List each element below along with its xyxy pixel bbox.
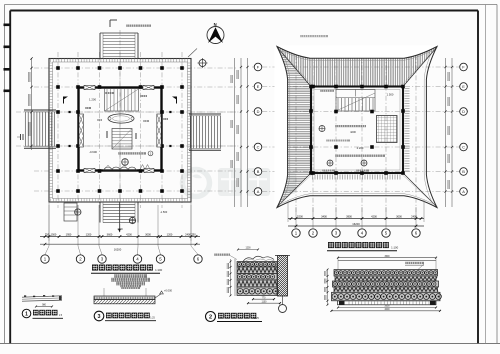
svg-text:1500: 1500 (51, 232, 57, 236)
svg-text:1950: 1950 (66, 232, 72, 236)
svg-text:D: D (462, 109, 465, 114)
svg-text:C: C (462, 145, 465, 150)
svg-text:1.500: 1.500 (387, 93, 394, 97)
svg-text:1200: 1200 (245, 248, 251, 250)
svg-text:1:25: 1:25 (254, 317, 259, 320)
svg-text:3600: 3600 (384, 306, 390, 308)
svg-text:E: E (462, 84, 465, 89)
svg-text:3000: 3000 (396, 214, 402, 218)
svg-text:A: A (462, 189, 465, 194)
svg-text:2: 2 (209, 315, 212, 321)
svg-text:5200: 5200 (297, 214, 303, 218)
svg-text:A: A (257, 189, 260, 194)
svg-text:1100: 1100 (262, 301, 268, 303)
svg-text:-0.600: -0.600 (89, 150, 97, 154)
svg-text:16200: 16200 (352, 222, 360, 226)
svg-text:3900: 3900 (346, 214, 352, 218)
svg-text:16200: 16200 (114, 248, 122, 252)
svg-text:1200: 1200 (86, 232, 92, 236)
svg-text:4000: 4000 (384, 309, 390, 311)
svg-text:2400: 2400 (411, 214, 417, 218)
svg-text:1:25: 1:25 (150, 318, 155, 320)
svg-text:3600: 3600 (384, 256, 390, 258)
svg-text:750: 750 (45, 232, 50, 236)
svg-text:4200: 4200 (371, 214, 377, 218)
svg-text:1:100: 1:100 (391, 246, 398, 250)
svg-text:3400: 3400 (321, 214, 327, 218)
svg-text:N: N (214, 22, 217, 27)
svg-text:C: C (257, 145, 260, 150)
svg-text:4200: 4200 (350, 130, 356, 134)
svg-text:1.200: 1.200 (89, 98, 96, 102)
svg-text:4400: 4400 (117, 228, 123, 231)
svg-text:D: D (257, 109, 260, 114)
svg-text:1: 1 (25, 311, 28, 317)
svg-text:3000: 3000 (145, 232, 151, 236)
svg-text:1200: 1200 (167, 232, 173, 236)
svg-text:+0.000: +0.000 (164, 289, 173, 293)
svg-text:3600: 3600 (107, 232, 113, 236)
svg-text:1:100: 1:100 (155, 268, 162, 272)
svg-text:E: E (257, 84, 260, 89)
svg-text:-1.500: -1.500 (160, 210, 168, 214)
svg-text:750: 750 (191, 232, 196, 236)
svg-text:2.200: 2.200 (357, 146, 364, 150)
svg-text:3: 3 (98, 314, 101, 320)
svg-text:B: B (257, 169, 260, 174)
svg-text:4200: 4200 (126, 232, 132, 236)
svg-text:B: B (462, 169, 465, 174)
